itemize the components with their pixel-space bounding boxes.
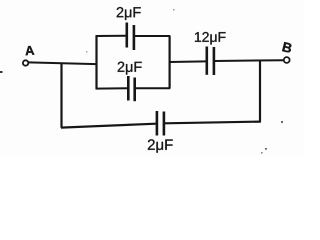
C4 value label 2uF bbox=[148, 139, 173, 152]
wire junction rise from bottom branch right bbox=[259, 60, 261, 121]
wire middle branch left bbox=[96, 87, 128, 89]
wire parallel box right edge bbox=[169, 36, 171, 89]
terminal B bbox=[284, 57, 290, 63]
terminal A bbox=[23, 60, 28, 65]
capacitor C3 12uF plates bbox=[207, 47, 214, 76]
C1 value label 2uF bbox=[117, 7, 141, 20]
capacitor C2 2uF middle plates bbox=[128, 76, 134, 101]
wire box right edge to C3 bbox=[170, 60, 206, 63]
capacitor C4 2uF bottom plates bbox=[157, 111, 164, 136]
node B label bbox=[282, 42, 292, 53]
wire top branch right bbox=[135, 35, 170, 37]
capacitor C1 2uF top plates bbox=[127, 23, 134, 51]
node A label bbox=[25, 46, 34, 56]
wire parallel box left edge bbox=[95, 36, 97, 89]
wire C3 to terminal B bbox=[215, 59, 284, 62]
wire junction drop to bottom branch bbox=[60, 63, 62, 128]
wire A to parallel box left bbox=[28, 62, 96, 64]
wire bottom branch left bbox=[61, 124, 156, 128]
wire middle branch right bbox=[136, 87, 171, 89]
scan specks bbox=[0, 9, 283, 154]
C2 value label 2uF bbox=[118, 62, 142, 75]
wire top branch left bbox=[96, 35, 127, 37]
C3 value label 12uF bbox=[195, 32, 226, 44]
wire bottom branch right bbox=[165, 122, 261, 124]
